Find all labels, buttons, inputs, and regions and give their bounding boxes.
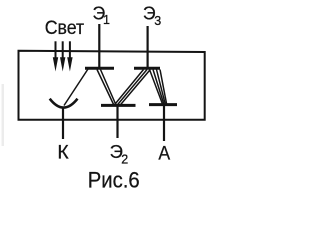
svg-text:Рис.6: Рис.6 [88, 167, 140, 189]
electron paths Э1 to Э2 (2 lines) [97, 70, 116, 105]
dynode Э1 plate [85, 67, 114, 70]
svg-text:Свет: Свет [45, 17, 85, 39]
dynode Э2 plate [101, 104, 136, 107]
electron path K to Э1 [64, 69, 88, 106]
svg-text:1: 1 [103, 13, 110, 27]
dynode Э3 plate [134, 67, 160, 70]
svg-text:К: К [57, 141, 69, 163]
tube envelope box [19, 51, 205, 120]
light arrow 2 [60, 41, 65, 71]
svg-text:3: 3 [154, 14, 161, 28]
label Э2 [110, 141, 129, 166]
light arrow 1 [53, 41, 58, 71]
wire: cathode K lead [62, 108, 64, 140]
anode A plate [149, 103, 177, 106]
wire: dynode Э1 lead [98, 24, 100, 69]
wire: dynode Э2 lead [116, 105, 118, 138]
wire: dynode Э3 lead [147, 26, 149, 69]
electron paths Э2 to Э3 (3 lines) [115, 70, 151, 105]
label Э3 [143, 2, 161, 28]
svg-text:2: 2 [121, 152, 128, 166]
wire: anode A lead [163, 105, 165, 141]
light arrow 3 [67, 41, 72, 71]
label Э1 [93, 2, 111, 27]
svg-text:А: А [158, 142, 170, 164]
electron paths Э3 to A (4 lines) [150, 70, 167, 104]
photocathode K arc [50, 99, 78, 108]
